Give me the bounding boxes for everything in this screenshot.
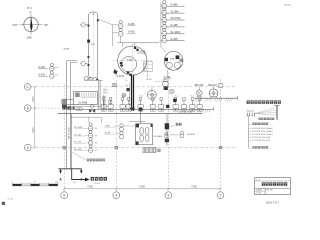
svg-text:G-4013: G-4013 [116, 76, 124, 78]
svg-text:14400: 14400 [94, 183, 101, 185]
svg-text:BM-408: BM-408 [195, 84, 204, 87]
svg-text:90°: 90° [44, 23, 48, 27]
svg-text:T-7 1: T-7 1 [256, 179, 260, 181]
svg-text:SL-18: SL-18 [146, 79, 152, 81]
svg-text:8-112: 8-112 [8, 199, 14, 201]
svg-text:SL-2: SL-2 [151, 96, 155, 98]
svg-text:SL-4: SL-4 [144, 63, 148, 65]
svg-text:SL-4008: SL-4008 [154, 136, 163, 138]
svg-text:SL-4: SL-4 [175, 96, 179, 98]
svg-text:11500: 11500 [33, 127, 35, 134]
svg-text:0°: 0° [29, 11, 32, 15]
svg-text:SL-4: SL-4 [103, 96, 107, 98]
svg-text:2: 2 [220, 194, 222, 198]
svg-text:10: 10 [34, 181, 36, 183]
svg-text:SL-2: SL-2 [191, 96, 195, 98]
svg-text:4-6=5.5: 4-6=5.5 [247, 110, 255, 112]
svg-text:1:100: 1:100 [256, 193, 261, 195]
svg-text:T-73: T-73 [170, 59, 175, 61]
svg-text:4: 4 [115, 194, 117, 198]
svg-text:2-CVV 8C 2x0.6 4P: 2-CVV 8C 2x0.6 4P [252, 137, 270, 139]
svg-text:SL-2: SL-2 [122, 96, 126, 98]
svg-text:750: 750 [73, 182, 76, 184]
svg-text:SL-2: SL-2 [144, 67, 148, 69]
svg-text:180°: 180° [27, 36, 33, 40]
svg-text:SL-8: SL-8 [144, 70, 148, 72]
svg-text:MB SL-4008: MB SL-4008 [68, 127, 70, 139]
svg-text:2500: 2500 [33, 96, 35, 102]
svg-text:DR. No.: DR. No. [266, 190, 273, 192]
svg-text:BM-403: BM-403 [208, 84, 217, 87]
svg-text:1B 8L-7 B. 7: 1B 8L-7 B. 7 [266, 202, 280, 205]
svg-text:SL-4: SL-4 [140, 96, 144, 98]
svg-text:20m: 20m [55, 181, 59, 183]
svg-text:3: 3 [167, 194, 169, 198]
svg-text:BL-408: BL-408 [188, 134, 196, 136]
svg-text:P U: P U [27, 6, 32, 10]
svg-text:270°: 270° [12, 23, 18, 27]
svg-text:1-CVV 8C 2x0.6 4P: 1-CVV 8C 2x0.6 4P [252, 140, 270, 142]
svg-text:5: 5 [63, 194, 65, 198]
svg-text:SL-4008: SL-4008 [78, 102, 88, 105]
svg-text:0: 0 [12, 181, 13, 183]
